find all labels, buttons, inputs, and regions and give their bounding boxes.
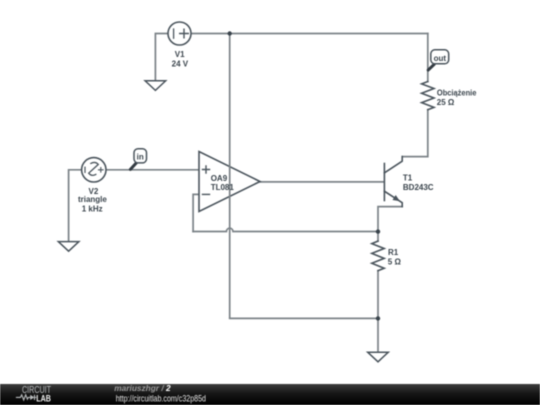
op-amp OA9 triangle bbox=[199, 152, 260, 212]
wire R1 bottom node to ground bbox=[377, 318, 379, 352]
svg-text:T1: T1 bbox=[403, 174, 413, 183]
svg-text:OA9: OA9 bbox=[211, 174, 228, 183]
footer bar bbox=[0, 384, 540, 405]
wire load resistor to collector bbox=[403, 110, 428, 157]
voltage source V2 bbox=[82, 158, 106, 182]
svg-text:TL081: TL081 bbox=[211, 183, 235, 192]
resistor Obciążenie 25 Ω zigzag bbox=[422, 82, 434, 110]
wire supply rail vertical bbox=[229, 34, 231, 319]
wire top rail down to load resistor bbox=[427, 34, 429, 82]
op-amp inverting - symbol bbox=[203, 193, 210, 195]
svg-text:mariuszhgr / 2: mariuszhgr / 2 bbox=[114, 383, 171, 393]
ground (V1) bbox=[145, 81, 166, 91]
svg-text:triangle: triangle bbox=[78, 195, 107, 204]
wire R1 top lead bbox=[377, 232, 379, 242]
transistor T1 bbox=[384, 157, 402, 207]
wire V2 negative lead to ground bbox=[69, 170, 82, 242]
svg-text:in: in bbox=[137, 152, 144, 161]
ground (R1 bottom) bbox=[368, 352, 389, 362]
footer logo circuit glyph bbox=[16, 395, 36, 400]
svg-text:R1: R1 bbox=[388, 248, 399, 257]
svg-text:LAB: LAB bbox=[36, 392, 51, 403]
node in flag bbox=[130, 149, 146, 170]
wire emitter down to feedback node bbox=[378, 207, 402, 232]
svg-text:25 Ω: 25 Ω bbox=[437, 98, 455, 107]
op-amp non-inverting + symbol bbox=[203, 166, 210, 173]
svg-text:out: out bbox=[434, 54, 447, 63]
wire V1 negative lead to ground bbox=[155, 34, 168, 81]
svg-text:5 Ω: 5 Ω bbox=[388, 258, 402, 267]
svg-text:24 V: 24 V bbox=[172, 60, 189, 69]
wire V2 positive to op-amp + input bbox=[106, 169, 199, 171]
wire op-amp output to base bbox=[260, 181, 384, 183]
svg-text:http://circuitlab.com/c32p85d: http://circuitlab.com/c32p85d bbox=[116, 394, 206, 404]
resistor R1 5 Ω zigzag bbox=[372, 241, 384, 271]
junction bottom node bbox=[376, 316, 380, 320]
junction feedback node bbox=[376, 229, 380, 233]
node out flag bbox=[428, 50, 448, 70]
svg-text:1 kHz: 1 kHz bbox=[82, 205, 103, 214]
svg-text:Obciążenie: Obciążenie bbox=[437, 89, 477, 98]
wire V1 positive to top rail bbox=[191, 33, 428, 35]
wire bottom return bbox=[230, 317, 378, 319]
svg-text:BD243C: BD243C bbox=[403, 183, 434, 192]
junction top rail bbox=[228, 31, 232, 35]
voltage source V1 bbox=[168, 22, 191, 45]
wire R1 bottom lead bbox=[377, 271, 379, 319]
wire feedback with hop over supply rail bbox=[193, 228, 377, 231]
ground (V2) bbox=[58, 242, 79, 252]
wire op-amp - input feedback left leg bbox=[193, 194, 199, 231]
svg-text:V1: V1 bbox=[175, 50, 185, 59]
